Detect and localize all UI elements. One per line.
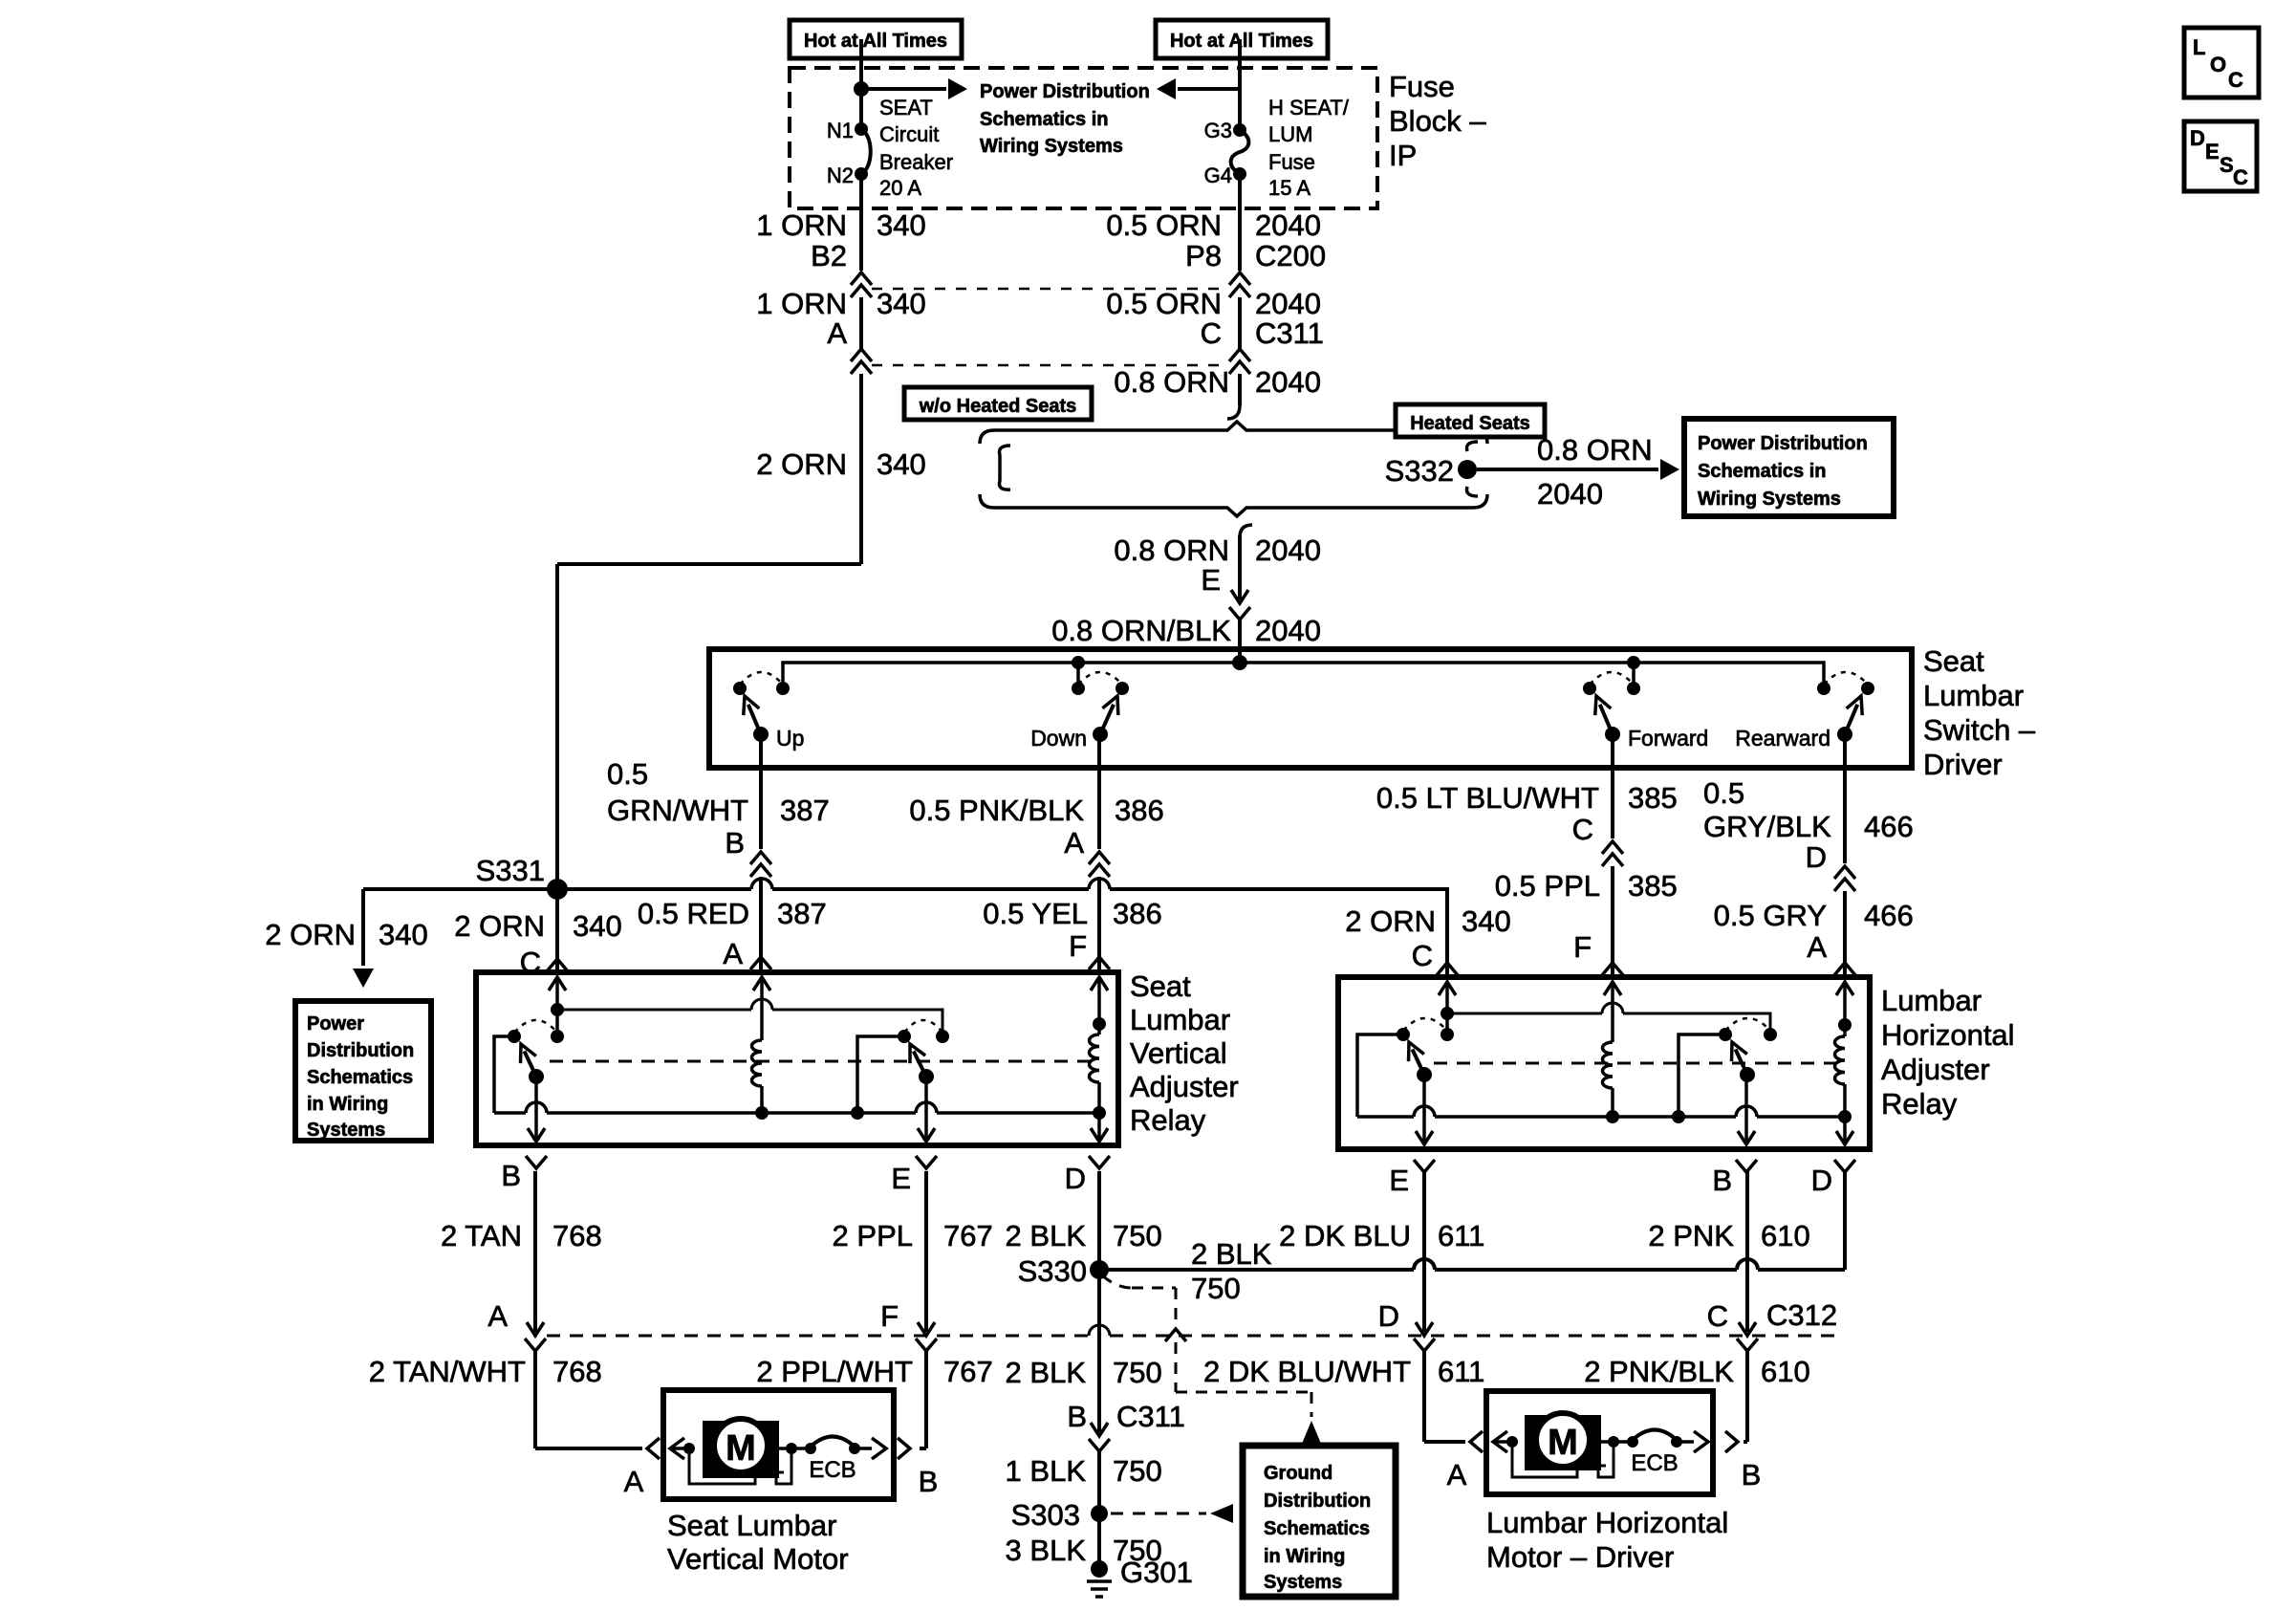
connector pass (GRN/WHT into seat harness) <box>750 852 771 864</box>
svg-text:A: A <box>487 1299 508 1333</box>
connector C200 dashed line <box>872 288 1229 291</box>
svg-text:S303: S303 <box>1011 1498 1080 1532</box>
svg-text:Lumbar Horizontal: Lumbar Horizontal <box>1486 1506 1728 1539</box>
wire 385 (0.5 LT BLU/WHT) from Forward switch, pin C <box>1611 734 1614 838</box>
svg-text:768: 768 <box>552 1219 602 1252</box>
motor2 pin A arrow <box>1494 1440 1512 1444</box>
splice S331 <box>547 879 568 900</box>
svg-text:340: 340 <box>877 208 926 242</box>
connector C200 pass (right wire) <box>1229 272 1250 285</box>
svg-text:Up: Up <box>776 726 804 751</box>
svg-text:B: B <box>919 1465 939 1498</box>
relay2 pin F entry arrow <box>1604 982 1621 995</box>
lumbar horizontal motor - driver (housing) <box>1486 1391 1713 1494</box>
wire 610 (2 PNK/BLK) to horizontal motor pin B <box>1745 1350 1749 1442</box>
wire 767 (2 PPL/WHT) to vertical motor pin B <box>924 1350 928 1448</box>
wire from left Hot box into fuse block <box>859 39 863 129</box>
svg-text:GRN/WHT: GRN/WHT <box>607 794 748 827</box>
svg-text:A: A <box>827 316 847 350</box>
svg-text:2 ORN: 2 ORN <box>1345 904 1436 938</box>
svg-text:340: 340 <box>379 918 428 951</box>
svg-text:Lumbar: Lumbar <box>1130 1003 1230 1036</box>
wire 2040 (0.8 ORN/BLK) into lumbar switch <box>1238 620 1242 663</box>
svg-text:Power Distribution: Power Distribution <box>980 81 1150 102</box>
reference arrow to Power Distribution (from fuse) <box>1178 87 1240 91</box>
svg-text:O: O <box>2210 53 2226 76</box>
wire 2040 (0.8 ORN) from S332 to Power Distribution reference <box>1477 468 1658 471</box>
svg-text:Relay: Relay <box>1130 1103 1206 1137</box>
svg-text:C: C <box>1412 939 1433 972</box>
corner tab box DESC <box>2184 121 2257 191</box>
relay2 pin B connector mark <box>1736 1160 1757 1172</box>
bus junction to Forward switch <box>1627 656 1640 669</box>
wire 610 (2 PNK) from relay2 pin B <box>1745 1171 1749 1332</box>
svg-text:2040: 2040 <box>1255 533 1321 567</box>
motor1 brushes <box>689 1454 755 1484</box>
motor1 circuit breaker ECB <box>805 1443 816 1454</box>
svg-text:Vertical: Vertical <box>1130 1036 1227 1070</box>
svg-text:Schematics in: Schematics in <box>980 109 1109 130</box>
option label box "w/o Heated Seats" <box>904 387 1092 420</box>
svg-text:610: 610 <box>1761 1219 1810 1252</box>
svg-text:610: 610 <box>1761 1355 1810 1388</box>
relay2 pin A entry arrow <box>1836 982 1853 995</box>
svg-text:Schematics in: Schematics in <box>1698 461 1827 482</box>
svg-text:1 BLK: 1 BLK <box>1006 1454 1087 1488</box>
wire from relay2 pin D to ground bus <box>1843 1171 1847 1270</box>
svg-text:C: C <box>1707 1299 1728 1333</box>
svg-text:D: D <box>1065 1162 1086 1195</box>
option brace (top) <box>980 422 1487 444</box>
svg-text:386: 386 <box>1113 897 1162 930</box>
splice S330 <box>1090 1260 1109 1279</box>
svg-text:2 BLK: 2 BLK <box>1191 1237 1272 1271</box>
svg-text:2 ORN: 2 ORN <box>756 447 847 481</box>
wire 750 (1 BLK) from C311 to S303 <box>1097 1451 1101 1513</box>
svg-text:M: M <box>726 1428 756 1469</box>
motor2 armature <box>1506 1436 1518 1448</box>
connector C200 pass (left wire) <box>851 272 872 285</box>
relay2 pin C entry arrow <box>1439 982 1456 995</box>
svg-text:M: M <box>1548 1423 1578 1463</box>
relay pin D connector mark <box>1089 1156 1110 1168</box>
svg-text:387: 387 <box>780 794 830 827</box>
relay switch 2 (vertical down) <box>898 1030 911 1043</box>
svg-text:E: E <box>2205 140 2220 163</box>
connector mark at motor2 pin B <box>1725 1431 1738 1452</box>
wire 2040 (0.8 ORN) above option braces <box>1238 374 1242 405</box>
svg-text:Switch –: Switch – <box>1923 713 2036 747</box>
svg-text:G4: G4 <box>1204 163 1232 187</box>
svg-text:H SEAT/: H SEAT/ <box>1268 96 1350 120</box>
svg-text:Breaker: Breaker <box>879 150 953 174</box>
wire 340 (2 ORN) from S331 down to vertical relay pin C <box>555 900 559 975</box>
wire corner from motor2 pin B up <box>1744 1440 1747 1444</box>
relay pin D exit <box>1097 1113 1101 1142</box>
relay2 pin D connector mark <box>1834 1160 1855 1172</box>
svg-text:340: 340 <box>877 287 926 320</box>
svg-text:LUM: LUM <box>1268 122 1312 146</box>
svg-text:C: C <box>2228 68 2243 92</box>
wire 387 (0.5 GRN/WHT) from Up switch, pin B <box>759 734 763 849</box>
svg-text:2 BLK: 2 BLK <box>1006 1356 1087 1389</box>
svg-text:0.5 PPL: 0.5 PPL <box>1495 869 1600 903</box>
svg-text:385: 385 <box>1628 869 1678 903</box>
switch Rearward <box>1817 682 1830 695</box>
svg-text:2 DK BLU/WHT: 2 DK BLU/WHT <box>1203 1355 1411 1388</box>
relay armature linkage (dashed) <box>550 1060 1093 1063</box>
svg-text:2 PNK: 2 PNK <box>1648 1219 1734 1252</box>
connector C312 pass (PNK) <box>1737 1339 1758 1351</box>
svg-text:2040: 2040 <box>1255 365 1321 399</box>
svg-text:Seat Lumbar: Seat Lumbar <box>667 1509 837 1542</box>
wire 340 (1 ORN) from circuit breaker N2 <box>859 174 863 271</box>
svg-text:S330: S330 <box>1018 1254 1087 1288</box>
svg-text:G3: G3 <box>1204 119 1232 142</box>
relay2 pin D exit <box>1843 1117 1847 1144</box>
wire 340 (1 ORN) below C200 <box>859 297 863 349</box>
switch Forward <box>1583 682 1596 695</box>
svg-text:3 BLK: 3 BLK <box>1006 1534 1087 1567</box>
relay2 pin B exit <box>1744 1075 1748 1144</box>
connector mark at motor pin B <box>898 1438 910 1459</box>
svg-text:2 PPL: 2 PPL <box>833 1219 913 1252</box>
svg-text:C200: C200 <box>1255 239 1326 272</box>
svg-text:L: L <box>2193 35 2205 59</box>
svg-text:A: A <box>723 937 743 970</box>
relay switch 2 NC branch <box>857 1036 904 1113</box>
svg-text:A: A <box>1064 826 1084 860</box>
option label box "Heated Seats" <box>1396 404 1545 437</box>
svg-text:2 BLK: 2 BLK <box>1006 1219 1087 1252</box>
relay2 switch 1 (forward) <box>1397 1028 1410 1041</box>
svg-text:E: E <box>891 1162 911 1195</box>
svg-text:Heated Seats: Heated Seats <box>1410 413 1530 434</box>
connector C311 pass (ground wire) <box>1089 1439 1110 1451</box>
wire 768 (2 TAN) from relay pin B <box>533 1171 537 1332</box>
wire 2040 (0.8 ORN) below option braces, pin E <box>1240 525 1252 537</box>
svg-text:750: 750 <box>1113 1219 1162 1252</box>
svg-text:D: D <box>1378 1299 1399 1333</box>
svg-text:C: C <box>1201 316 1222 350</box>
svg-text:G301: G301 <box>1120 1556 1193 1589</box>
w/o heated seats termination stub <box>999 446 1010 490</box>
svg-text:340: 340 <box>877 447 926 481</box>
svg-text:0.5: 0.5 <box>1703 776 1744 810</box>
connector pass (GRY/BLK) <box>1834 866 1855 879</box>
fuse H SEAT/LUM 15 A, pins G3-G4 <box>1238 39 1242 130</box>
svg-text:IP: IP <box>1389 139 1417 172</box>
svg-text:S332: S332 <box>1385 454 1454 488</box>
svg-text:2040: 2040 <box>1255 287 1321 320</box>
wire 2040 (0.5 ORN) from fuse G4 <box>1238 174 1242 271</box>
svg-text:750: 750 <box>1113 1356 1162 1389</box>
svg-text:2 TAN/WHT: 2 TAN/WHT <box>369 1355 526 1388</box>
power feed box "Hot at All Times" (right) <box>1156 20 1328 58</box>
svg-text:15 A: 15 A <box>1268 176 1310 200</box>
connector C312 pass (DK BLU) <box>1414 1339 1435 1351</box>
svg-text:Distribution: Distribution <box>1264 1491 1371 1512</box>
connector C311 dashed line <box>872 364 1229 367</box>
power feed box "Hot at All Times" (left) <box>790 20 962 58</box>
wire 386 (0.5 PNK/BLK) from Down switch, pin A <box>1097 734 1101 849</box>
svg-text:C311: C311 <box>1255 316 1324 350</box>
svg-text:750: 750 <box>1113 1454 1162 1488</box>
svg-text:Block –: Block – <box>1389 104 1486 138</box>
svg-text:N2: N2 <box>827 163 854 187</box>
svg-text:A: A <box>1447 1458 1467 1491</box>
wire 340 (2 ORN) bus from S331 to horizontal relay pin C <box>557 887 751 891</box>
svg-text:0.8 ORN: 0.8 ORN <box>1537 433 1653 467</box>
svg-text:Schematics: Schematics <box>307 1067 413 1088</box>
switch Up <box>733 682 747 695</box>
svg-text:340: 340 <box>1462 904 1511 938</box>
relay coil 2 (down winding) <box>1093 1017 1106 1031</box>
motor1 pin B arrow <box>855 1447 872 1450</box>
circuit breaker SEAT 20 A, pins N1-N2 <box>855 122 868 136</box>
svg-text:S331: S331 <box>476 854 545 887</box>
svg-text:Relay: Relay <box>1881 1087 1958 1121</box>
svg-text:Lumbar: Lumbar <box>1923 679 2024 712</box>
svg-text:Systems: Systems <box>1264 1572 1342 1593</box>
svg-text:Driver: Driver <box>1923 748 2003 781</box>
svg-text:466: 466 <box>1864 899 1914 932</box>
bus junction to Down switch <box>1072 656 1085 669</box>
svg-text:in Wiring: in Wiring <box>1264 1546 1345 1567</box>
svg-text:466: 466 <box>1864 810 1914 843</box>
svg-text:Adjuster: Adjuster <box>1881 1053 1990 1086</box>
svg-text:0.5 YEL: 0.5 YEL <box>983 897 1088 930</box>
svg-text:E: E <box>1389 1164 1409 1197</box>
relay switch 1 (vertical up) <box>508 1030 521 1043</box>
svg-text:C: C <box>2233 165 2248 189</box>
relay2 switch 2 (rearward) <box>1719 1028 1732 1041</box>
svg-text:B: B <box>725 826 745 860</box>
connector pass (PNK/BLK into seat harness) <box>1089 852 1110 864</box>
svg-text:2 TAN: 2 TAN <box>441 1219 522 1252</box>
svg-text:2 ORN: 2 ORN <box>454 909 545 943</box>
svg-text:Wiring Systems: Wiring Systems <box>1698 489 1841 510</box>
svg-text:2 ORN: 2 ORN <box>265 918 356 951</box>
svg-text:767: 767 <box>943 1355 993 1388</box>
svg-text:0.5 PNK/BLK: 0.5 PNK/BLK <box>909 794 1084 827</box>
svg-text:0.5 RED: 0.5 RED <box>638 897 749 930</box>
wire 750 (2 BLK) from relay pin D to S330 <box>1097 1171 1101 1270</box>
ground bus wire 750 (2 BLK) from S330 to relay2 pin D <box>1099 1268 1414 1272</box>
connector mark at motor pin A <box>647 1438 660 1459</box>
connector C312 dashed line <box>547 1335 1089 1338</box>
svg-text:A: A <box>1807 930 1827 964</box>
wire 2040 (0.5 ORN) below C200 <box>1238 297 1242 349</box>
motor1 armature <box>683 1443 695 1454</box>
svg-text:Horizontal: Horizontal <box>1881 1018 2015 1052</box>
reference dashed wire from S303 to Ground Distribution <box>1111 1513 1206 1515</box>
relay2 internal feed wire from pin C <box>1440 1007 1454 1020</box>
svg-text:Lumbar: Lumbar <box>1881 984 1982 1017</box>
node junction on circuit breaker feed <box>854 81 869 97</box>
svg-text:2 DK BLU: 2 DK BLU <box>1279 1219 1411 1252</box>
connector mark at motor2 pin A <box>1470 1431 1483 1452</box>
svg-text:Power: Power <box>307 1013 364 1034</box>
connector C311 pass (left wire) <box>851 349 872 361</box>
svg-text:0.8 ORN: 0.8 ORN <box>1114 365 1229 399</box>
splice S303 <box>1091 1505 1108 1522</box>
svg-text:SEAT: SEAT <box>879 96 933 120</box>
svg-text:2040: 2040 <box>1255 208 1321 242</box>
svg-text:340: 340 <box>573 909 622 943</box>
relay2 coil 1 (forward winding) <box>1603 1042 1614 1088</box>
svg-text:0.5 LT BLU/WHT: 0.5 LT BLU/WHT <box>1376 781 1599 815</box>
connector C312 pass (TAN) <box>525 1339 546 1351</box>
svg-text:Seat: Seat <box>1130 969 1191 1003</box>
seat lumbar switch - driver (housing) <box>709 649 1912 768</box>
seat lumbar vertical adjuster relay (housing) <box>476 972 1118 1145</box>
svg-text:Fuse: Fuse <box>1268 150 1315 174</box>
wire 767 (2 PPL) from relay pin E <box>924 1171 928 1332</box>
svg-text:Vertical Motor: Vertical Motor <box>667 1542 849 1576</box>
option ground path (dashed) from S330 <box>1102 1275 1132 1288</box>
svg-text:E: E <box>1201 563 1221 597</box>
reference box Power Distribution Schematics in Wiring Systems (left) <box>295 1001 431 1141</box>
svg-text:Motor – Driver: Motor – Driver <box>1486 1540 1674 1574</box>
svg-text:0.8 ORN/BLK: 0.8 ORN/BLK <box>1051 614 1231 647</box>
svg-text:1 ORN: 1 ORN <box>756 287 847 320</box>
relay pin B connector mark <box>526 1156 547 1168</box>
splice S332 (heated seats) <box>1466 442 1478 451</box>
svg-text:2040: 2040 <box>1537 477 1603 511</box>
relay pin A entry arrow <box>753 977 770 991</box>
svg-text:ECB: ECB <box>1631 1450 1678 1476</box>
motor1 pin A arrow <box>671 1447 689 1450</box>
svg-text:Rearward: Rearward <box>1735 726 1830 751</box>
svg-text:B: B <box>1712 1164 1732 1197</box>
svg-text:2 PNK/BLK: 2 PNK/BLK <box>1584 1355 1734 1388</box>
reference triangle to Ground Distribution <box>1302 1421 1321 1444</box>
svg-text:D: D <box>1806 840 1827 874</box>
svg-text:Adjuster: Adjuster <box>1130 1070 1239 1103</box>
svg-text:750: 750 <box>1191 1272 1241 1305</box>
fuse block - IP dashed outline <box>790 68 1377 208</box>
svg-text:Wiring Systems: Wiring Systems <box>980 136 1123 157</box>
svg-text:1 ORN: 1 ORN <box>756 208 847 242</box>
svg-text:387: 387 <box>777 897 827 930</box>
svg-text:A: A <box>624 1465 644 1498</box>
svg-text:B: B <box>1067 1400 1087 1433</box>
motor2 pin B arrow <box>1677 1440 1694 1444</box>
svg-text:2040: 2040 <box>1255 614 1321 647</box>
corner tab box LOC <box>2184 28 2259 98</box>
C312 hop over ground wire <box>1089 1325 1110 1336</box>
svg-text:C311: C311 <box>1116 1400 1185 1433</box>
svg-text:Ground: Ground <box>1264 1463 1332 1484</box>
svg-text:D: D <box>1811 1164 1832 1197</box>
svg-text:611: 611 <box>1438 1219 1484 1252</box>
svg-text:611: 611 <box>1438 1355 1484 1388</box>
relay internal feed wire from pin C <box>551 1003 564 1016</box>
relay pin E connector mark <box>916 1156 937 1168</box>
relay coil 1 (up winding) <box>752 1040 763 1086</box>
switch Down <box>1072 682 1085 695</box>
svg-text:F: F <box>1069 929 1087 963</box>
svg-text:0.5: 0.5 <box>607 757 648 791</box>
svg-text:Power Distribution: Power Distribution <box>1698 433 1868 454</box>
svg-text:w/o Heated Seats: w/o Heated Seats <box>919 396 1077 417</box>
connector C312 pass (dashed option wire) <box>1165 1329 1186 1341</box>
connector C310 pass (driver switch connector) <box>1229 607 1250 620</box>
reference arrow to Power Distribution (from circuit breaker) <box>861 87 946 91</box>
svg-text:768: 768 <box>552 1355 602 1388</box>
reference box Power Distribution Schematics in Wiring Systems (right) <box>1684 419 1894 516</box>
svg-text:386: 386 <box>1115 794 1164 827</box>
wire 768 (2 TAN/WHT) to vertical motor pin A <box>533 1350 537 1448</box>
wire 611 (2 DK BLU/WHT) to horizontal motor pin A <box>1422 1350 1426 1442</box>
relay pin E exit <box>924 1077 928 1142</box>
svg-text:B: B <box>501 1159 521 1192</box>
svg-text:0.5 ORN: 0.5 ORN <box>1106 208 1222 242</box>
switch feed bus wire <box>783 663 1824 688</box>
svg-text:767: 767 <box>943 1219 993 1252</box>
svg-text:B: B <box>1742 1458 1762 1491</box>
svg-text:N1: N1 <box>827 119 854 142</box>
svg-text:C312: C312 <box>1766 1298 1837 1332</box>
svg-text:0.5 ORN: 0.5 ORN <box>1106 287 1222 320</box>
svg-text:F: F <box>880 1299 899 1333</box>
svg-text:0.5 GRY: 0.5 GRY <box>1714 899 1827 932</box>
wire 611 (2 DK BLU) from relay2 pin E <box>1422 1171 1426 1332</box>
ground G301 <box>1091 1560 1108 1578</box>
reference box Ground Distribution Schematics in Wiring Systems <box>1243 1446 1396 1597</box>
wire 750 (3 BLK) from S303 to ground <box>1097 1513 1101 1569</box>
svg-text:ECB: ECB <box>809 1457 856 1483</box>
svg-text:Systems: Systems <box>307 1120 385 1141</box>
svg-text:2 PPL/WHT: 2 PPL/WHT <box>756 1355 913 1388</box>
relay2 switch 1 NC branch <box>1357 1034 1403 1117</box>
svg-text:Schematics: Schematics <box>1264 1518 1370 1539</box>
relay2 pin E connector mark <box>1414 1160 1435 1172</box>
relay pin B exit <box>534 1077 538 1142</box>
option brace (bottom) <box>980 494 1487 516</box>
svg-text:Hot at All Times: Hot at All Times <box>804 31 947 52</box>
svg-text:D: D <box>2190 126 2205 150</box>
svg-text:Forward: Forward <box>1628 726 1708 751</box>
svg-text:C: C <box>1572 813 1593 846</box>
wire 750 (2 BLK) from S330 down to C311 <box>1097 1279 1101 1432</box>
connector C312 pass (PPL) <box>916 1339 937 1351</box>
svg-text:P8: P8 <box>1185 239 1222 272</box>
relay2 pin E exit <box>1422 1075 1426 1144</box>
wire 340 (2 ORN) long run to S331 <box>859 374 863 564</box>
connector pass (LT BLU/WHT) <box>1602 841 1623 854</box>
relay pin F entry arrow <box>1091 977 1108 991</box>
relay internal ground bus <box>494 1111 526 1115</box>
connector C311 pass (right wire) <box>1229 349 1250 361</box>
svg-text:GRY/BLK: GRY/BLK <box>1703 810 1831 843</box>
motor2 brushes <box>1512 1448 1577 1477</box>
relay pin C entry arrow <box>549 977 566 991</box>
svg-text:Distribution: Distribution <box>307 1040 414 1061</box>
svg-text:385: 385 <box>1628 781 1678 815</box>
wire 340 (2 ORN) branch to Power Distribution reference (left) <box>363 887 557 891</box>
feed junction node <box>1232 655 1247 670</box>
relay2 armature linkage (dashed) <box>1434 1062 1837 1065</box>
relay2 coil 2 (rearward winding) <box>1838 1018 1852 1032</box>
svg-text:in Wiring: in Wiring <box>307 1094 388 1115</box>
motor2 circuit breaker ECB <box>1627 1436 1638 1448</box>
relay2 switch 2 NC branch <box>1679 1034 1725 1117</box>
wire 466 (0.5 GRY/BLK) from Rearward switch, pin D <box>1843 734 1847 863</box>
svg-text:Circuit: Circuit <box>879 122 939 146</box>
lumbar horizontal adjuster relay (housing) <box>1338 977 1870 1149</box>
